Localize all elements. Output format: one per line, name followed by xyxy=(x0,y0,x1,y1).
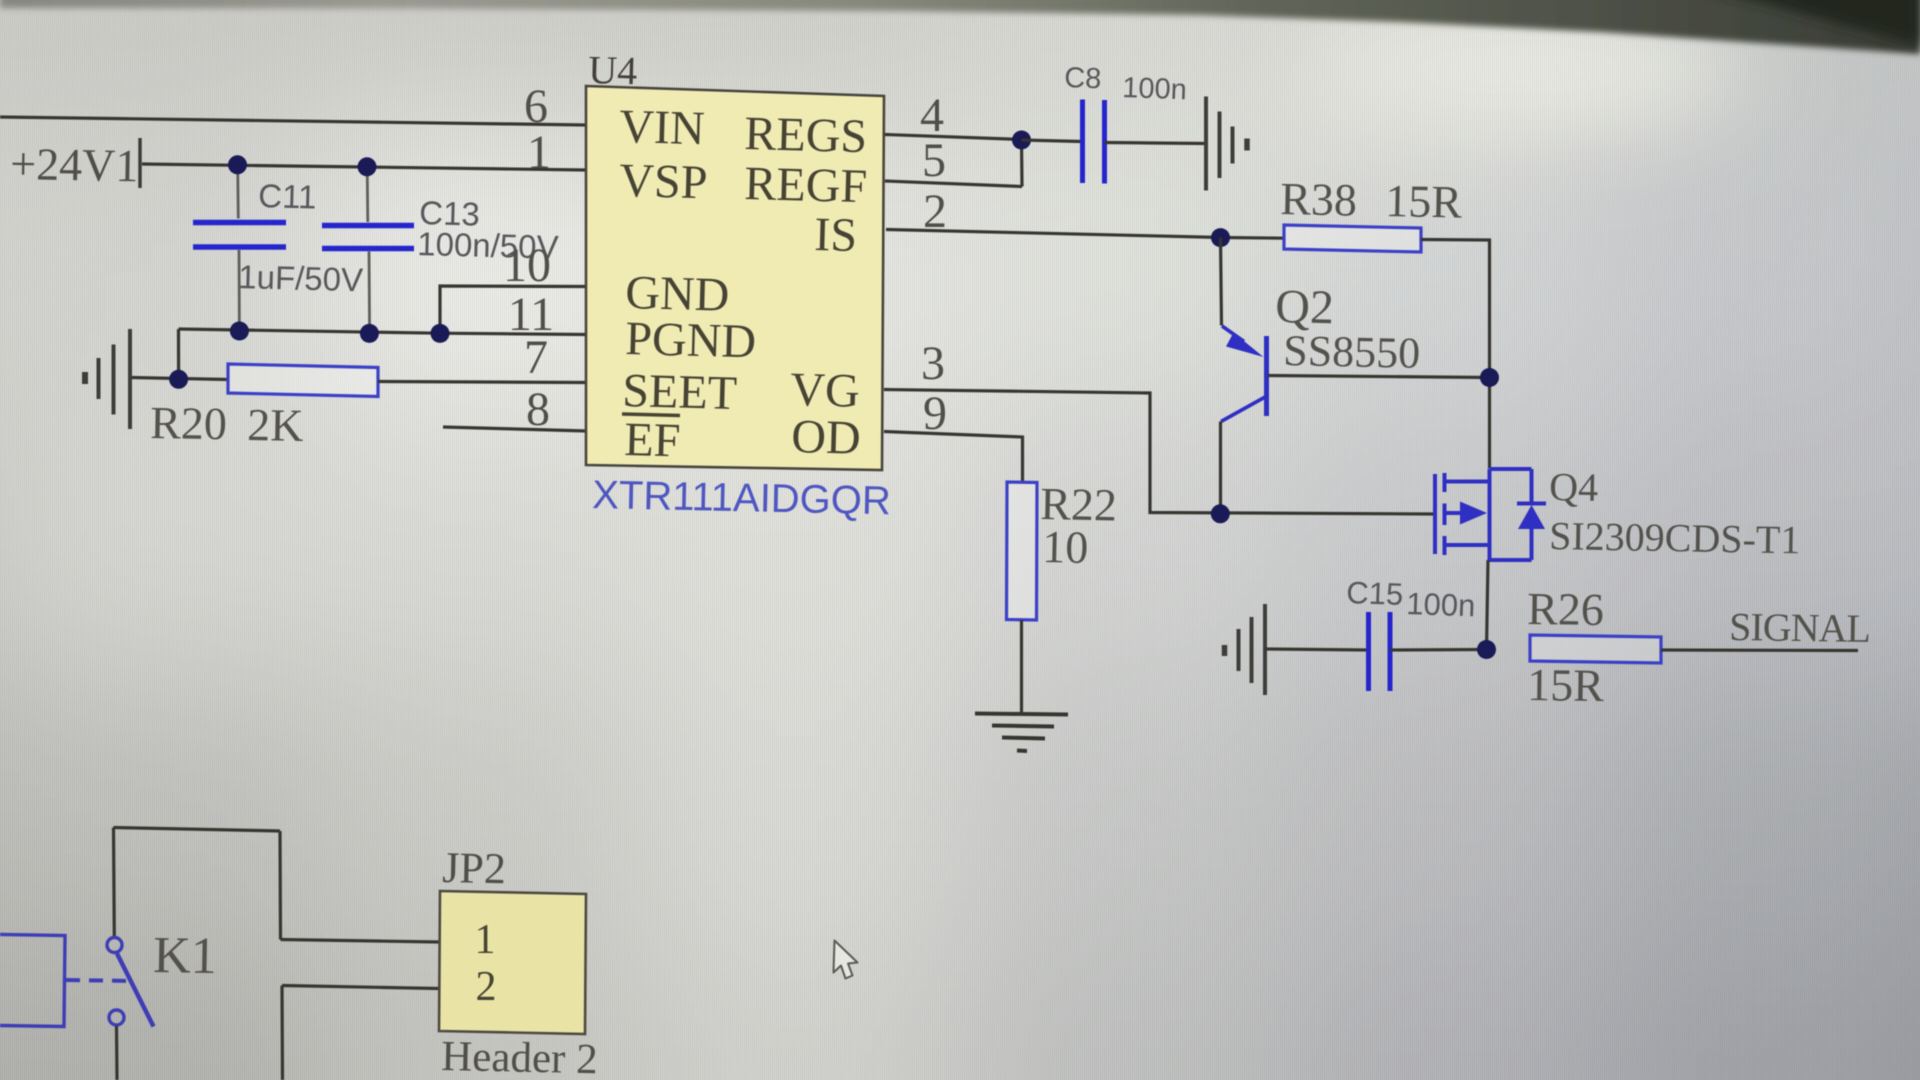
wire R38 right to corner xyxy=(1421,240,1490,469)
junction node R20 left xyxy=(169,370,188,389)
body diode bottom rail xyxy=(1490,558,1532,562)
earth ground symbol xyxy=(975,714,1068,752)
relay K1 coil box xyxy=(0,934,65,1027)
wire K1 top xyxy=(114,828,281,832)
base bar xyxy=(1264,336,1269,416)
transistor Q2 SS8550 xyxy=(1221,238,1490,515)
emitter diagonal with arrow xyxy=(1222,326,1244,342)
wire REGS pin4 xyxy=(885,135,1022,140)
resistor R38 xyxy=(1284,225,1421,252)
wire EF pin8 stub xyxy=(443,427,587,431)
capacitor C15 xyxy=(1265,575,1487,691)
capacitor C13 xyxy=(322,167,559,334)
drain stub top xyxy=(1446,480,1490,484)
wire to JP2 pin1 xyxy=(281,940,440,943)
resistor R20 xyxy=(228,364,378,397)
body diode triangle xyxy=(1518,505,1545,529)
power port +24V1 bar xyxy=(138,138,142,188)
relay K1 dashed link xyxy=(66,980,133,981)
junction node gate/Q2 collector xyxy=(1211,504,1230,523)
bulk stub middle with arrow xyxy=(1446,511,1462,515)
ground symbol left (power ground) xyxy=(85,329,130,429)
overbar EF xyxy=(622,414,680,416)
switch contact top xyxy=(107,938,122,953)
wire R22 to ground xyxy=(1020,620,1023,713)
resistor R22 xyxy=(1007,482,1038,620)
source stub bottom xyxy=(1446,543,1490,547)
wire ground leg xyxy=(177,329,180,379)
wire pin4-pin5 vertical xyxy=(1020,140,1024,187)
junction node C15/R26/Q4 xyxy=(1477,640,1496,659)
ground symbol at C15 (power ground) xyxy=(1225,604,1266,695)
wire IS pin2 xyxy=(886,230,1284,239)
body diode top rail xyxy=(1490,467,1532,471)
junction node base/R38 corner xyxy=(1480,368,1499,387)
switch contact bottom xyxy=(109,1010,124,1025)
gate bar xyxy=(1433,474,1437,554)
wire net VIN pin6 xyxy=(0,117,586,125)
wire VG pin3 xyxy=(884,390,1434,515)
wire K1 bottom vertical xyxy=(115,1026,119,1080)
wire R20 left xyxy=(131,378,228,380)
capacitor C8 xyxy=(1022,62,1206,183)
emitter wire from IS xyxy=(1221,238,1222,326)
junction node pin4/C8 xyxy=(1012,131,1031,150)
wire ground bus / PGND pin11 xyxy=(179,329,587,335)
IC U4 body xyxy=(586,86,884,470)
junction node bus at C13 xyxy=(360,324,379,343)
mouse cursor xyxy=(834,941,858,979)
body diode anode lead xyxy=(1530,529,1534,560)
junction node IS/Q2 xyxy=(1211,228,1230,247)
wire OD pin9 xyxy=(884,432,1023,483)
wire to SIGNAL xyxy=(1661,648,1858,652)
resistor R26 xyxy=(1530,635,1661,663)
wire R20 to SEET pin7 xyxy=(378,382,586,383)
wire K1 left vertical xyxy=(112,828,116,937)
junction node bus at C11 xyxy=(230,322,249,341)
ground symbol at C8 (power ground) xyxy=(1206,97,1247,191)
source-drain rail xyxy=(1488,469,1492,560)
collector diagonal xyxy=(1221,397,1266,422)
junction node on +24V at C11 xyxy=(228,155,247,174)
transistor Q4 SI2309CDS-T1 (PMOS) xyxy=(1435,469,1546,560)
channel segments xyxy=(1443,473,1447,492)
header JP2 body xyxy=(439,891,586,1034)
wire GND pin10 xyxy=(440,286,586,333)
body diode cathode lead xyxy=(1530,469,1534,503)
wire JP2 pin2 down xyxy=(280,986,284,1080)
capacitor C11 xyxy=(193,165,363,331)
wire K1 right vertical xyxy=(278,831,282,940)
wire REGF pin5 xyxy=(885,181,1022,187)
body diode cathode bar xyxy=(1517,502,1546,506)
collector wire down xyxy=(1219,422,1222,515)
base wire to R38 node xyxy=(1268,376,1490,378)
switch blade xyxy=(117,954,154,1027)
junction node on +24V at C13 xyxy=(358,157,377,176)
wire to JP2 pin2 xyxy=(282,986,439,989)
junction node bus at pin10 leg xyxy=(431,324,450,343)
wire Q4 source down xyxy=(1487,560,1489,650)
wire net +24V to VSP pin1 xyxy=(142,164,586,170)
